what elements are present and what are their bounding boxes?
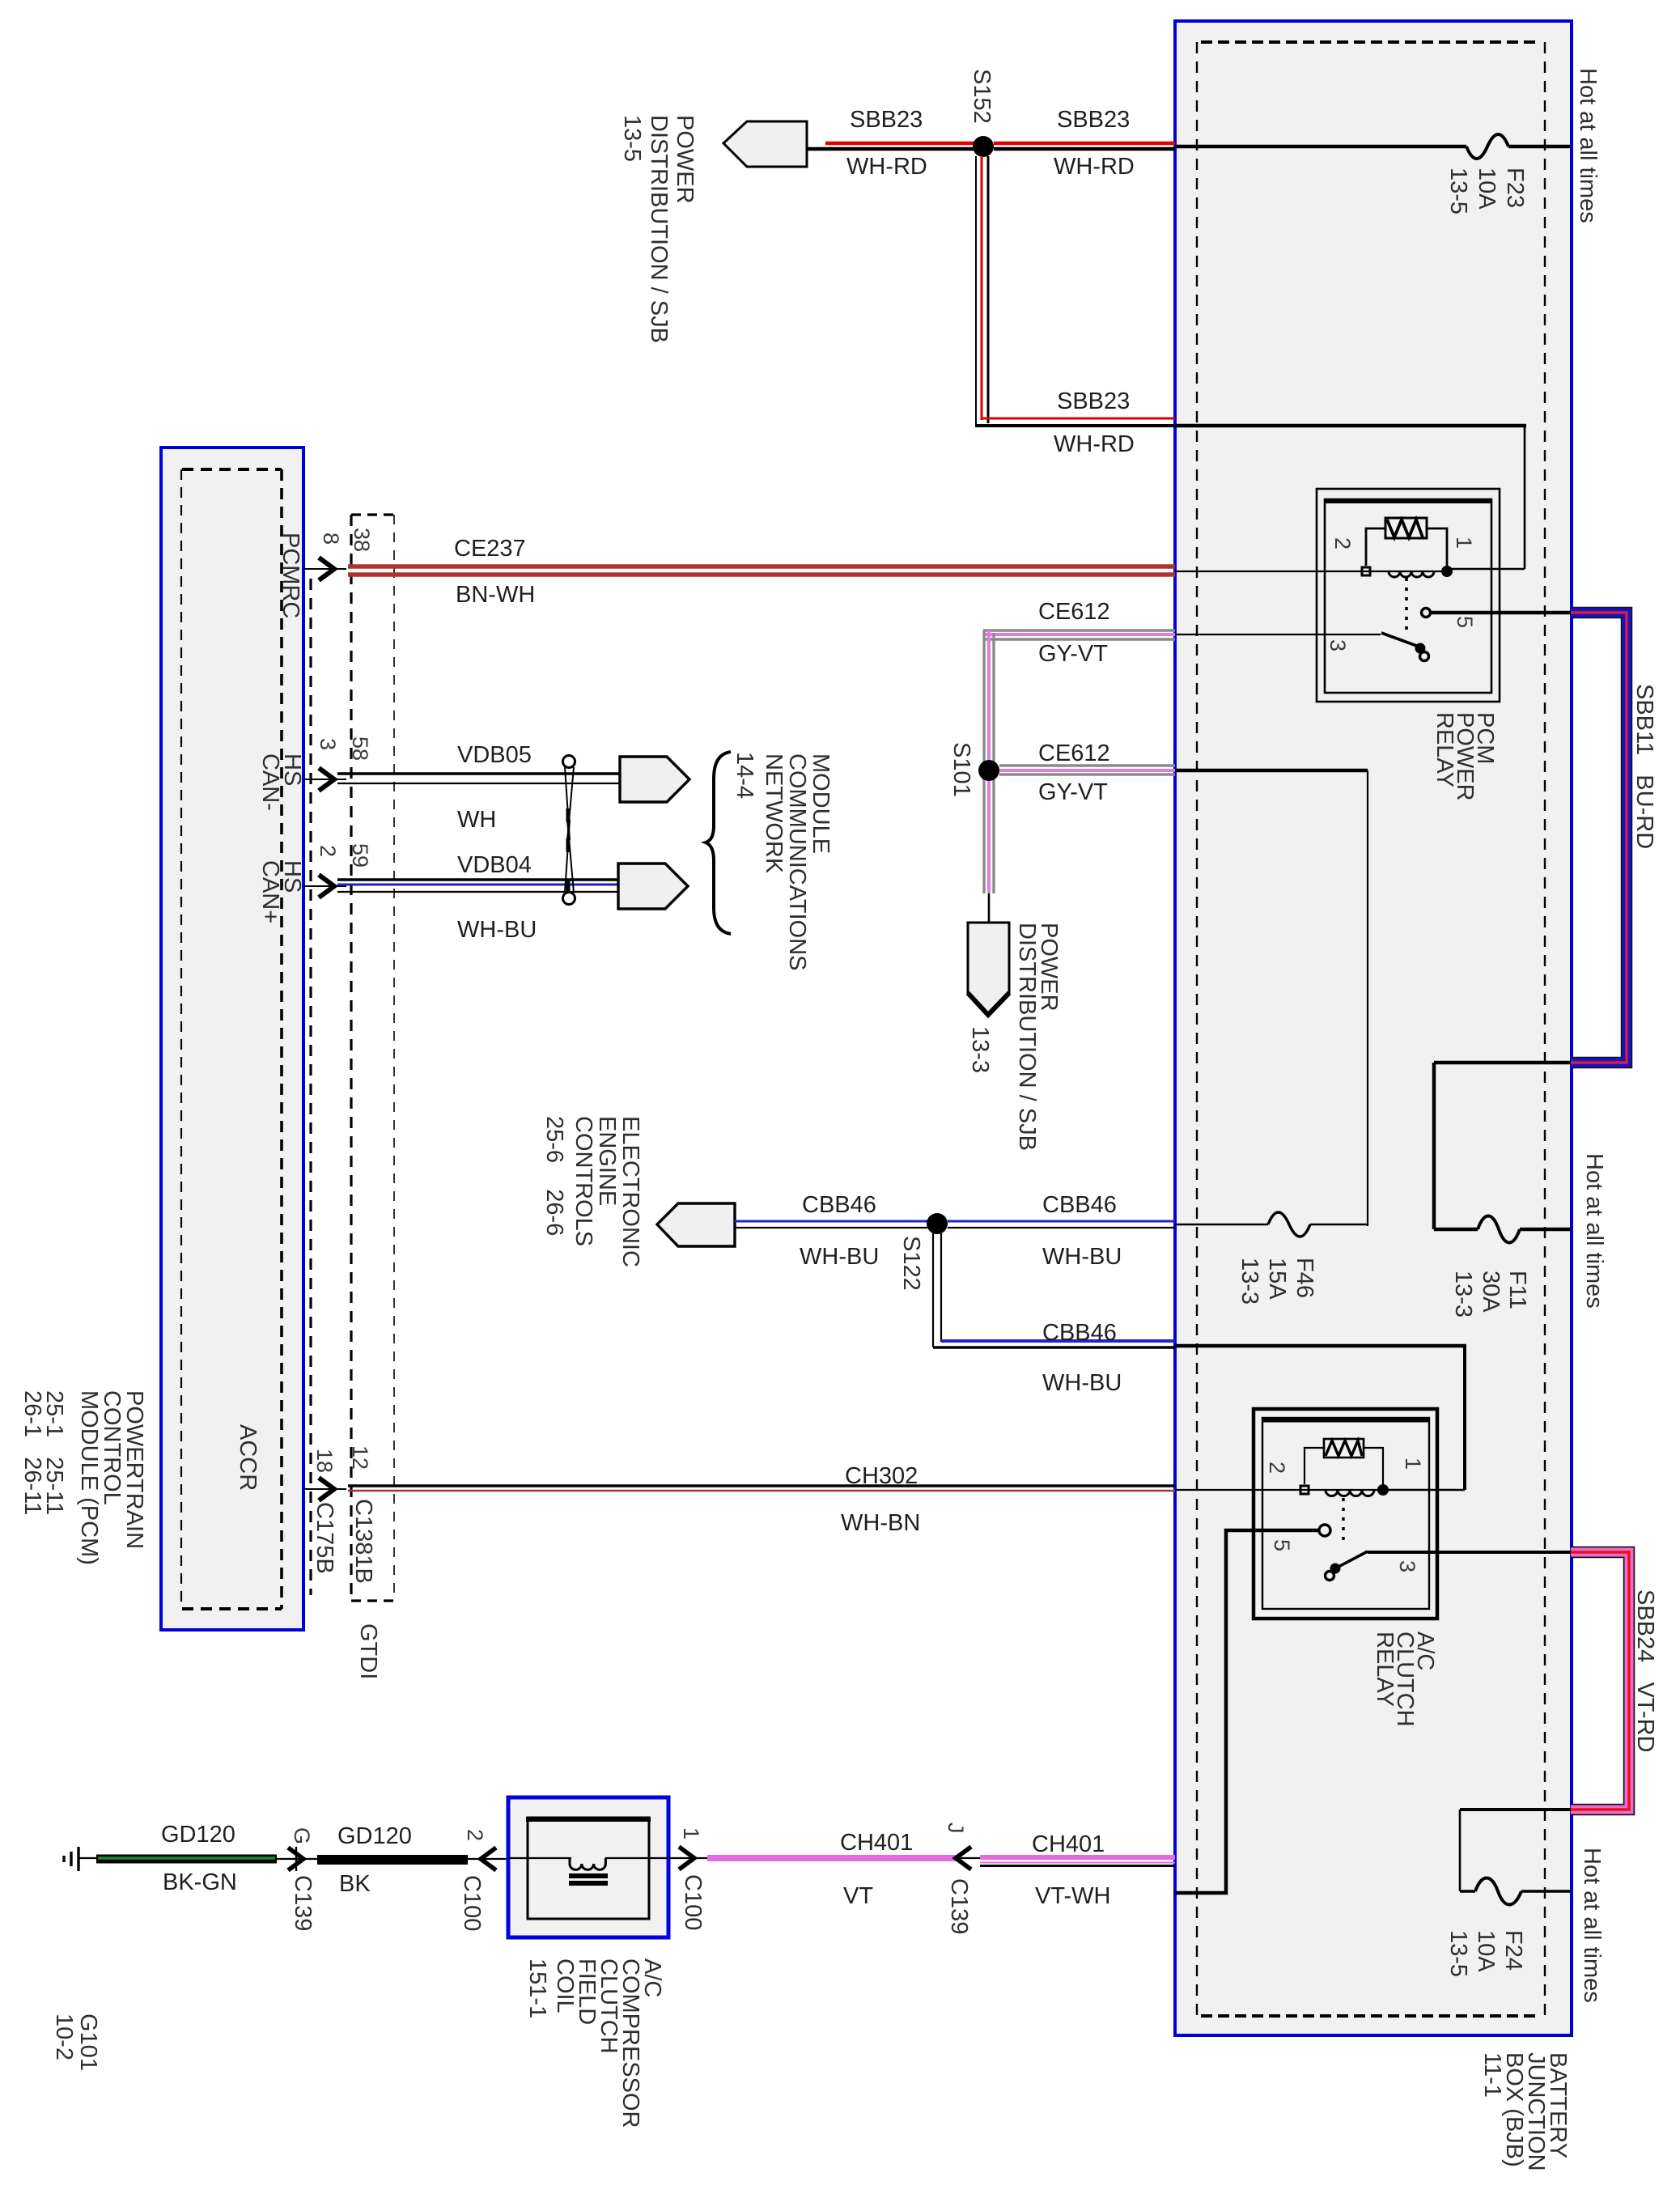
field coil wire through [508,1857,571,1859]
svg-text:VT-WH: VT-WH [1035,1883,1110,1909]
svg-text:WH-BU: WH-BU [1042,1370,1122,1396]
svg-text:PCMRC: PCMRC [278,533,303,618]
wire SBB23 inside BJB to PCM relay pin1 [1175,424,1526,428]
pin 18 arrow ACCR [303,1488,346,1490]
svg-text:10-2: 10-2 [51,2013,77,2060]
twisted pair loop VDB05 [563,756,575,768]
wire SBB23 vertical branch from S152 [975,156,977,427]
svg-text:C139: C139 [946,1878,972,1934]
battery junction box BJB outline [1175,21,1572,2035]
PCM inner dashed border top [182,468,282,471]
svg-text:F24: F24 [1500,1930,1526,1971]
svg-text:F11: F11 [1504,1271,1530,1309]
svg-text:MODULE (PCM): MODULE (PCM) [76,1390,102,1565]
svg-text:S152: S152 [969,69,995,124]
svg-text:CE612: CE612 [1038,599,1110,625]
PCM relay resistor [1385,518,1427,538]
svg-text:38: 38 [350,528,374,552]
svg-text:151-1: 151-1 [524,1958,550,2018]
svg-text:13-3: 13-3 [1237,1258,1262,1305]
splice S122 [927,1213,948,1234]
svg-text:14-4: 14-4 [732,752,757,799]
wire SBB23 WH-RD left segment [807,147,976,151]
wire CE612 vertical branch [982,630,985,893]
connector arrow VDB04 module communications [618,863,688,909]
BJB inner dashed border right [1544,42,1546,2016]
A/C relay switch arm pin3 [1335,1551,1368,1568]
svg-text:WH-RD: WH-RD [1054,154,1135,180]
svg-text:F46: F46 [1292,1258,1317,1298]
svg-text:DISTRIBUTION / SJB: DISTRIBUTION / SJB [646,115,672,343]
svg-text:CAN-: CAN- [257,753,283,811]
connector C100 pin 2 [468,1858,508,1860]
svg-text:POWER: POWER [672,115,698,204]
svg-text:15A: 15A [1264,1258,1290,1300]
svg-text:2: 2 [316,845,340,857]
fuse F24 element [1475,1878,1521,1905]
wire SBB24 VT-RD outside BJB [1571,1552,1629,1810]
svg-text:SBB24 VT-RD: SBB24 VT-RD [1632,1589,1658,1752]
connector arrow ELECTRONIC ENGINE CONTROLS [657,1203,735,1246]
PCM inner dashed border bottom [182,1607,282,1610]
PCM inner dashed border right [280,469,283,1609]
BJB inner dashed border left [1196,42,1198,2016]
svg-text:C100: C100 [459,1875,485,1931]
svg-text:VT: VT [843,1883,873,1909]
BJB inner dashed border top [1201,40,1536,44]
svg-text:25-6 26-6: 25-6 26-6 [541,1116,567,1236]
fuse F11 feed wire [1434,1228,1478,1232]
wire GD120 BK [317,1855,468,1865]
svg-text:CONTROLS: CONTROLS [571,1116,596,1246]
powertrain control module PCM box [161,448,303,1630]
svg-text:GD120: GD120 [161,1822,235,1848]
splice S101 [978,760,999,781]
wire CE612 GY-VT lower segment [999,764,1175,766]
svg-text:MODULE: MODULE [808,753,834,854]
wire CBB46 vertical branch from S122 [932,1233,934,1347]
svg-text:2: 2 [1265,1462,1289,1474]
fuse F24 feed wire [1460,1890,1475,1892]
wire F11 top segment [1434,1061,1571,1065]
A/C relay armature dotted link [1342,1498,1344,1546]
fuse F46 element [1268,1212,1310,1237]
A/C relay pin2 terminal [1300,1486,1309,1494]
svg-text:13-5: 13-5 [1445,168,1471,214]
svg-text:F23: F23 [1502,168,1528,208]
wire CE612 GY-VT upper segment [983,629,1175,631]
wire VDB04 WH-BU [337,878,618,880]
svg-text:3: 3 [1395,1560,1419,1572]
svg-text:18: 18 [312,1449,337,1473]
ground G101 [77,1847,79,1871]
wire CE237 BN-WH [348,564,1175,569]
svg-text:ACCR: ACCR [235,1424,261,1491]
svg-text:WH: WH [457,807,496,833]
connector arrow VDB05 module communications [620,757,689,802]
svg-text:26-1 26-11: 26-1 26-11 [19,1390,45,1515]
svg-text:13-5: 13-5 [619,115,645,162]
wire A/C relay pin3 to right edge [1368,1551,1571,1554]
wire A/C relay pin5 to CH401 [1175,1530,1319,1893]
svg-text:5: 5 [1270,1539,1294,1551]
BJB inner dashed border bottom [1201,2014,1536,2018]
svg-text:WH-RD: WH-RD [846,154,927,180]
svg-text:RELAY: RELAY [1372,1632,1398,1707]
svg-text:2: 2 [463,1829,487,1841]
field coil core bars [569,1873,608,1878]
connector C100 pin 1 [669,1857,711,1859]
svg-text:WH-RD: WH-RD [1054,431,1135,457]
svg-text:RELAY: RELAY [1432,712,1457,787]
svg-text:3: 3 [1326,639,1350,651]
A/C relay pin1 terminal [1377,1484,1389,1496]
wire F24 top segment [1460,1808,1571,1811]
svg-text:8: 8 [319,533,343,545]
pin 8 arrow PCMRC [303,568,346,570]
svg-text:G101: G101 [75,2013,101,2071]
wire CH302 WH-BN [348,1484,1175,1487]
connector C1381B dashed box top [351,513,394,516]
wire CBB46 inside BJB to A/C relay pin1 [1175,1344,1466,1348]
svg-text:Hot at all times: Hot at all times [1579,1848,1605,2003]
wire CE237 inside BJB to PCM relay pin2 [1175,571,1363,572]
svg-text:S122: S122 [898,1236,924,1291]
svg-text:SBB23: SBB23 [1057,107,1130,133]
PCM relay pin5 contact [1422,609,1431,617]
wire CH401 VT [707,1855,956,1861]
svg-text:CH302: CH302 [845,1463,918,1489]
svg-text:12: 12 [348,1445,372,1470]
wire CH401 VT-WH [980,1855,1175,1860]
svg-text:SBB11 BU-RD: SBB11 BU-RD [1631,684,1657,849]
svg-text:CH401: CH401 [1032,1831,1105,1857]
svg-text:S101: S101 [948,742,974,797]
PCM relay switch arm pin3 [1381,633,1421,647]
PCM inner dashed border left [180,469,182,1609]
A/C relay pin5 contact [1319,1525,1330,1536]
svg-text:SBB23: SBB23 [850,107,923,133]
field coil windings [570,1858,605,1869]
PCM relay pin1 terminal [1441,566,1453,577]
PCM relay coil [1360,571,1451,572]
PCM power relay outer box [1317,489,1500,702]
PCM relay pin2 terminal [1362,567,1370,575]
svg-text:58: 58 [348,736,372,761]
svg-text:BK-GN: BK-GN [163,1869,237,1895]
svg-text:1: 1 [1452,537,1476,549]
svg-text:COIL: COIL [552,1958,578,2013]
svg-text:Hot at all times: Hot at all times [1575,68,1601,223]
wire CH302 inside BJB to A/C relay pin2 [1175,1489,1301,1491]
svg-text:2: 2 [1330,537,1355,549]
A/C compressor clutch field coil box [508,1797,668,1937]
PCM power relay inner box [1325,499,1491,693]
pin 2 arrow HS CAN+ [303,885,346,887]
A/C relay resistor [1324,1439,1364,1458]
wire PCM relay pin5 to right edge [1431,611,1571,615]
fuse F23 feed wire [1175,145,1466,149]
wire CBB46 WH-BU left segment [735,1220,927,1223]
field coil inner box [528,1818,649,1919]
svg-text:13-3: 13-3 [1450,1271,1476,1318]
A/C clutch relay outer box [1254,1409,1437,1619]
connector arrow POWER DISTRIBUTION / SJB 13-5 [723,121,807,167]
wire CE612 inside BJB to PCM relay pin3 [1175,634,1381,635]
svg-text:G: G [290,1827,314,1844]
connector C1381B dashed box right [393,515,395,1601]
svg-text:VDB05: VDB05 [457,742,532,768]
connector C139 pin G [277,1858,319,1860]
svg-text:1: 1 [679,1827,703,1839]
svg-text:CBB46: CBB46 [1042,1192,1117,1218]
A/C relay coil [1300,1489,1389,1491]
connector arrow POWER DISTRIBUTION / SJB 13-3 [968,923,1009,1015]
pin 3 arrow HS CAN- [303,779,346,780]
svg-text:C175B: C175B [312,1502,337,1574]
svg-text:GD120: GD120 [337,1823,412,1849]
wire SBB11 BU-RD outside BJB [1571,613,1627,1063]
svg-text:C1381B: C1381B [350,1499,376,1584]
wire CE612 inside BJB to F46 [1175,769,1368,773]
svg-text:SBB23: SBB23 [1057,388,1130,414]
svg-text:C139: C139 [290,1875,316,1931]
svg-text:CBB46: CBB46 [802,1192,876,1218]
twisted pair loop VDB04 [563,893,575,905]
svg-text:CE237: CE237 [454,536,526,562]
wire SBB23 WH-RD lower segment [982,418,1175,420]
svg-text:NETWORK: NETWORK [761,753,787,874]
svg-text:11-1: 11-1 [1479,2052,1505,2098]
svg-text:C100: C100 [680,1874,706,1930]
svg-text:5: 5 [1453,616,1477,628]
PCM relay armature dotted link [1405,578,1408,636]
svg-text:J: J [944,1822,968,1834]
svg-text:WH-BN: WH-BN [841,1510,920,1536]
brace module communications network [706,752,731,934]
wire GD120 BK-GN [96,1855,277,1864]
fuse F11 element [1478,1216,1520,1243]
svg-text:ENGINE: ENGINE [594,1116,620,1206]
svg-text:DISTRIBUTION / SJB: DISTRIBUTION / SJB [1014,923,1040,1151]
fuse F46 feed wire [1175,1224,1268,1225]
fuse F23 element [1466,134,1508,159]
svg-text:CE612: CE612 [1038,740,1110,766]
A/C relay resistor leads [1305,1448,1324,1484]
svg-text:30A: 30A [1478,1271,1504,1313]
svg-text:10A: 10A [1473,1930,1499,1972]
svg-text:10A: 10A [1474,168,1500,210]
wire CBB46 WH-BU right segment [948,1220,1175,1223]
svg-text:BK: BK [339,1871,371,1897]
PCM relay resistor leads [1366,528,1385,566]
svg-text:GY-VT: GY-VT [1038,641,1108,667]
svg-text:59: 59 [348,843,372,868]
svg-text:Hot at all times: Hot at all times [1581,1153,1607,1309]
svg-text:GY-VT: GY-VT [1038,779,1108,805]
svg-text:CBB46: CBB46 [1042,1320,1117,1346]
wire VDB05 WH [337,772,620,774]
svg-text:WH-BU: WH-BU [457,917,537,943]
svg-text:BN-WH: BN-WH [456,582,535,608]
connector C1381B dashed box left [350,515,352,1601]
connector C175B dashed line [309,579,312,1595]
wire CBB46 WH-BU lower segment [941,1339,1175,1343]
svg-text:WH-BU: WH-BU [1042,1244,1122,1270]
svg-text:ELECTRONIC: ELECTRONIC [617,1116,643,1267]
svg-text:COMMUNICATIONS: COMMUNICATIONS [784,753,810,971]
connector C1381B dashed box bottom [351,1599,394,1602]
svg-text:WH-BU: WH-BU [800,1244,879,1270]
svg-text:13-3: 13-3 [967,1026,993,1073]
svg-text:1: 1 [1401,1458,1425,1470]
svg-text:CAN+: CAN+ [257,860,283,923]
svg-text:CH401: CH401 [840,1830,913,1856]
splice S152 [973,136,994,157]
svg-text:VDB04: VDB04 [457,852,532,878]
wire SBB23 WH-RD right segment [994,142,1175,146]
wire stub to connector POWER DISTRIBUTION 13-3 [988,893,991,924]
connector C139 pin J [956,1847,971,1869]
A/C clutch relay inner box [1262,1418,1429,1609]
svg-text:GTDI: GTDI [355,1623,381,1679]
svg-text:3: 3 [316,738,340,750]
svg-text:13-5: 13-5 [1445,1930,1471,1977]
